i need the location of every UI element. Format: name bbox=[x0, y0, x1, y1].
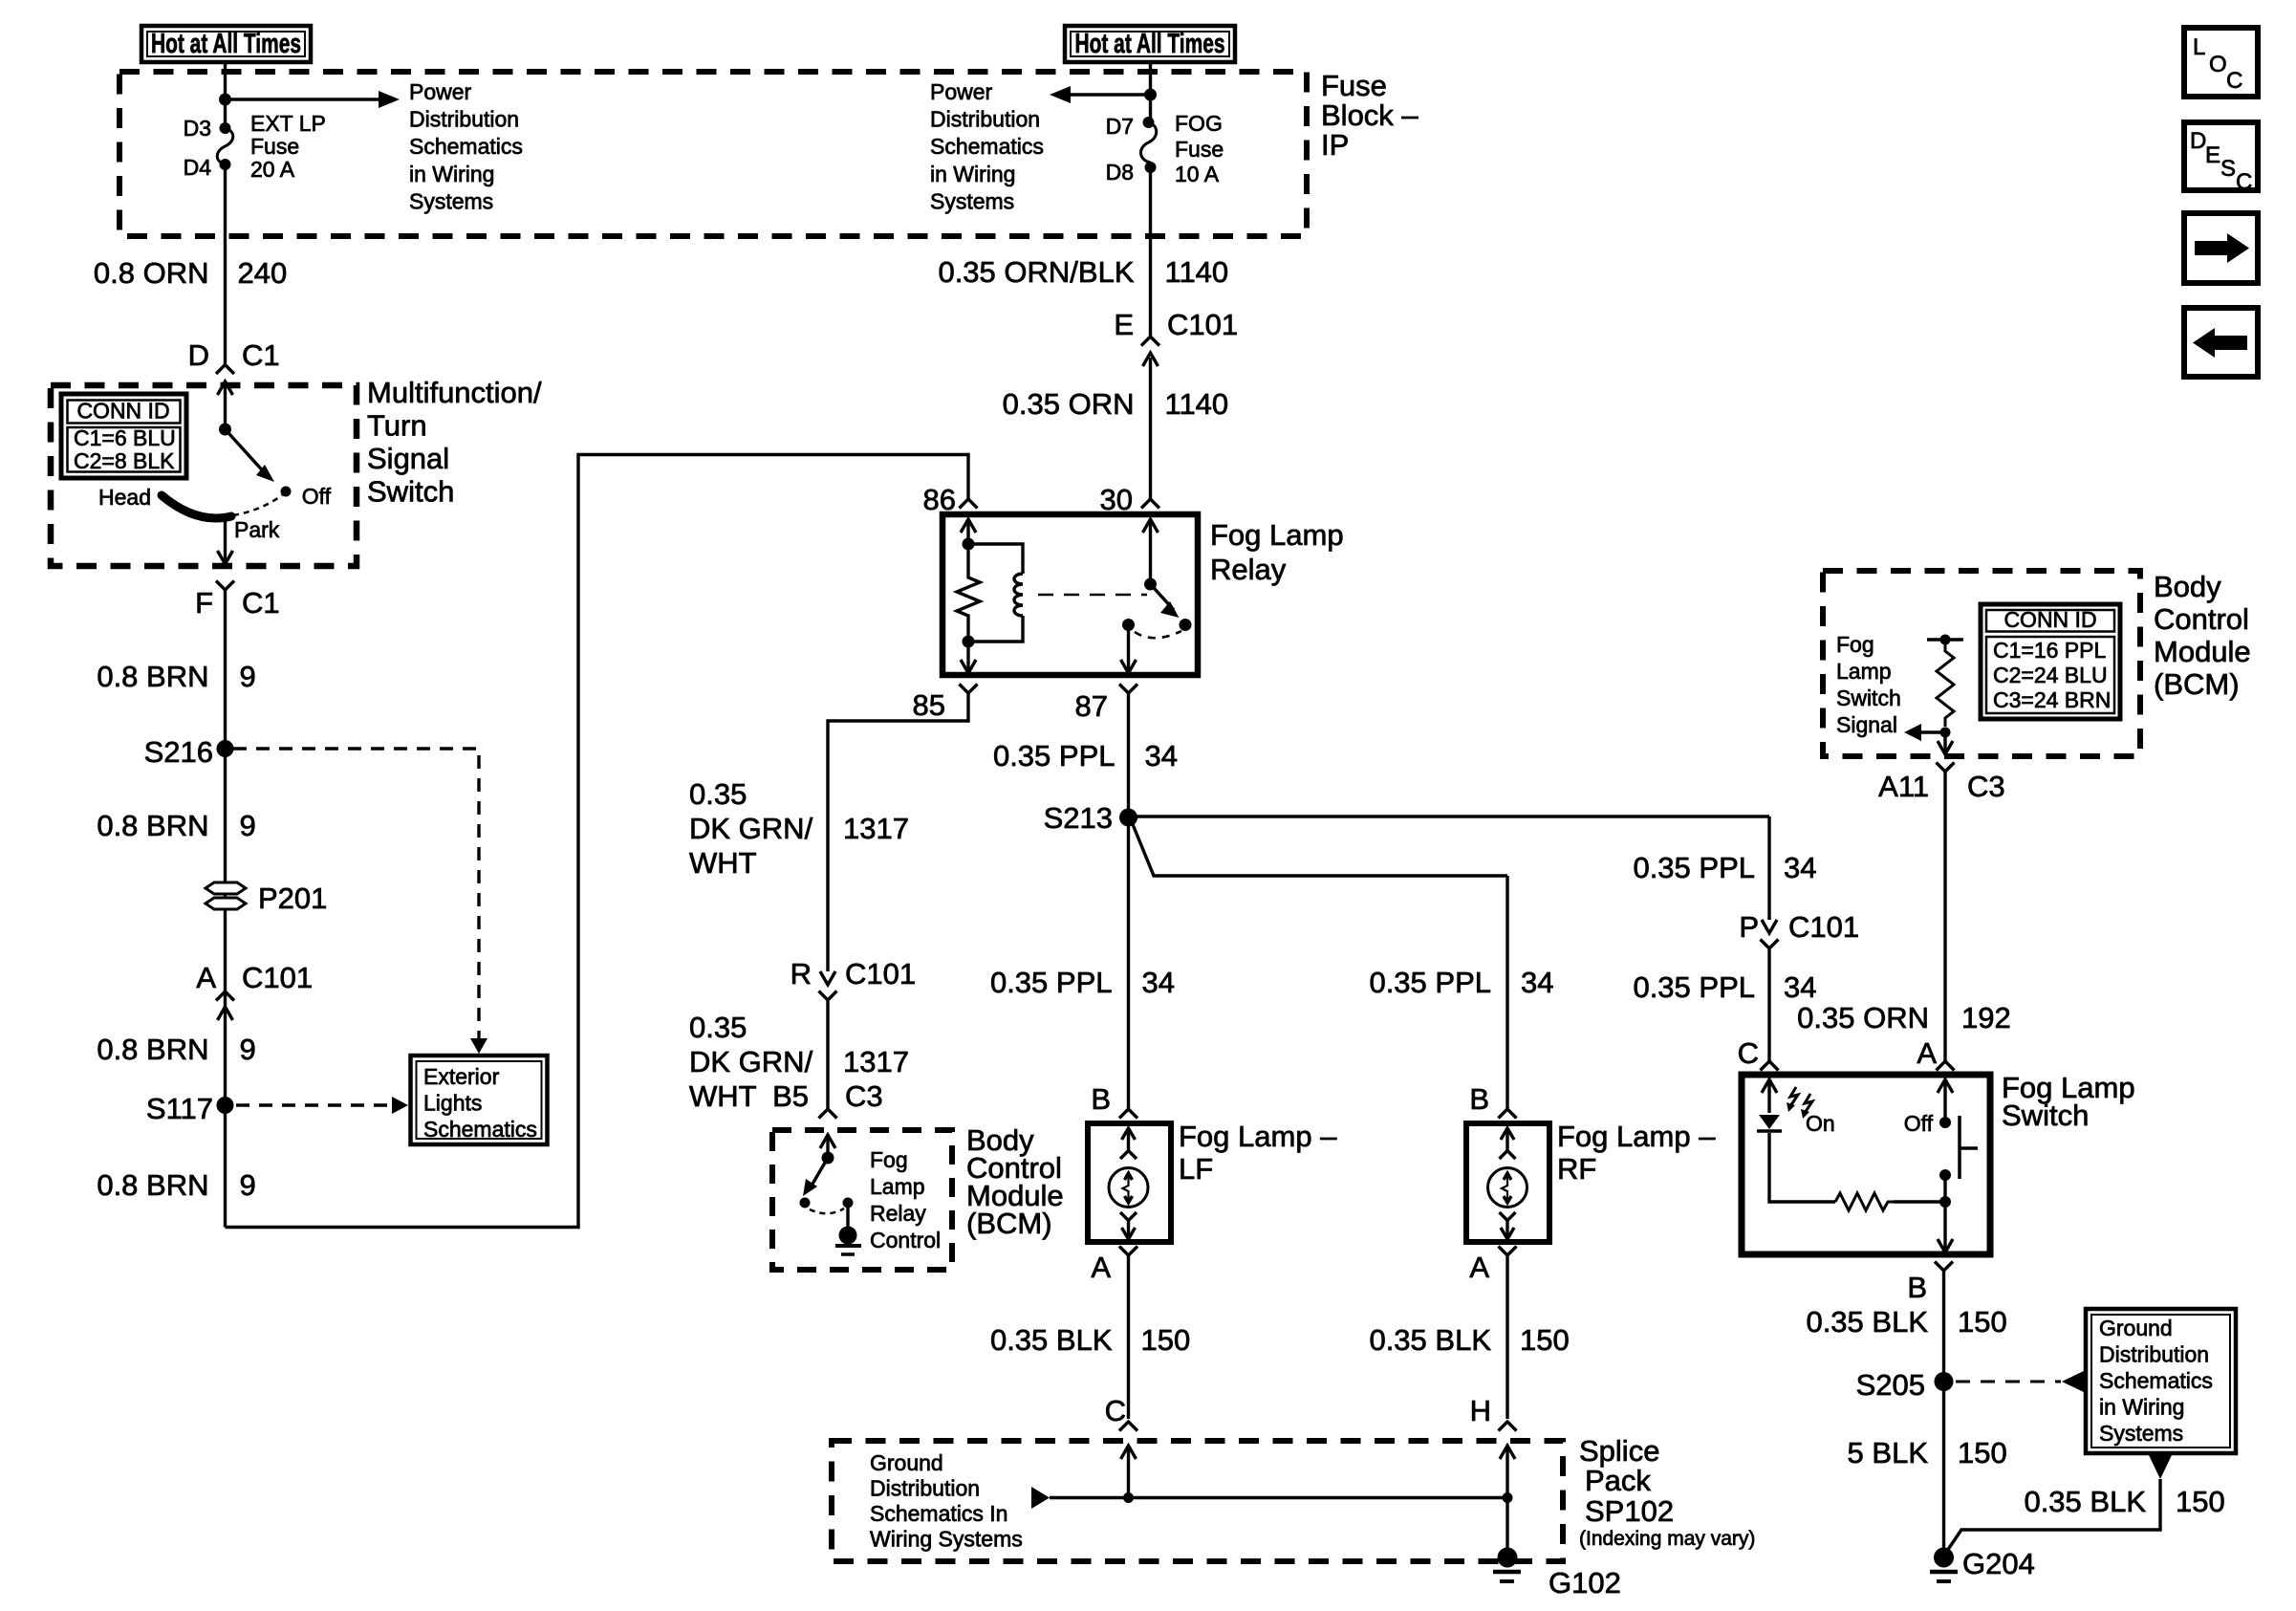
svg-text:Systems: Systems bbox=[409, 188, 493, 213]
svg-text:CONN ID: CONN ID bbox=[76, 399, 169, 424]
svg-text:9: 9 bbox=[240, 809, 256, 842]
svg-text:Switch: Switch bbox=[2002, 1099, 2089, 1132]
svg-text:0.35: 0.35 bbox=[689, 1011, 747, 1044]
Head-Park thick arc bbox=[162, 495, 231, 518]
BCM pull-up resistor bbox=[1927, 638, 1963, 641]
svg-text:C3=24 BRN: C3=24 BRN bbox=[1993, 687, 2111, 712]
svg-text:Block –: Block – bbox=[1321, 98, 1419, 132]
svg-text:Fog: Fog bbox=[870, 1147, 908, 1172]
connector F C1 bbox=[216, 581, 234, 591]
splice pack node C bbox=[1123, 1492, 1134, 1503]
Multifunction/Turn Signal Switch dashed box bbox=[51, 385, 357, 566]
svg-text:Schematics In: Schematics In bbox=[870, 1501, 1007, 1526]
svg-text:A: A bbox=[196, 961, 216, 994]
svg-text:C3: C3 bbox=[845, 1079, 883, 1113]
switch resistor bbox=[1835, 1193, 1894, 1210]
Fuse Block - IP dashed box bbox=[119, 72, 1307, 236]
ground G102 bbox=[1498, 1548, 1518, 1568]
svg-text:0.35 ORN/BLK: 0.35 ORN/BLK bbox=[938, 255, 1134, 289]
svg-text:C1: C1 bbox=[242, 586, 280, 620]
junction node in fuse block left bbox=[219, 94, 231, 106]
arrow to Power Distribution (left fuse) bbox=[226, 98, 379, 100]
svg-text:1317: 1317 bbox=[843, 812, 909, 845]
svg-text:Pack: Pack bbox=[1585, 1464, 1651, 1497]
svg-text:D: D bbox=[188, 338, 209, 372]
wire D4 down to connector D/C1 bbox=[224, 164, 227, 364]
svg-text:34: 34 bbox=[1784, 851, 1816, 884]
svg-text:(Indexing may vary): (Indexing may vary) bbox=[1579, 1528, 1755, 1550]
svg-text:A: A bbox=[1469, 1251, 1489, 1284]
svg-text:Park: Park bbox=[234, 517, 280, 542]
svg-text:C1: C1 bbox=[242, 338, 280, 372]
push button bar bbox=[1958, 1116, 1961, 1179]
LF bulb terminal chevron bottom bbox=[1120, 1212, 1137, 1221]
svg-text:C101: C101 bbox=[242, 961, 313, 994]
svg-text:240: 240 bbox=[238, 256, 288, 290]
BCM driver node bbox=[822, 1152, 834, 1165]
wire RF branch down bbox=[1505, 876, 1508, 1109]
svg-text:Schematics: Schematics bbox=[2099, 1368, 2213, 1393]
svg-text:192: 192 bbox=[1961, 1001, 2011, 1034]
svg-text:IP: IP bbox=[1321, 128, 1349, 162]
svg-text:34: 34 bbox=[1145, 739, 1178, 773]
splice S117 bbox=[217, 1097, 234, 1114]
svg-text:Switch: Switch bbox=[1836, 686, 1901, 710]
svg-text:5 BLK: 5 BLK bbox=[1848, 1436, 1929, 1469]
connector A11 C3 bbox=[1937, 763, 1955, 773]
svg-text:Signal: Signal bbox=[367, 442, 449, 475]
svg-text:Exterior: Exterior bbox=[423, 1064, 500, 1089]
svg-text:0.35 BLK: 0.35 BLK bbox=[990, 1323, 1113, 1357]
relay pin 87 fork below bbox=[1119, 685, 1137, 694]
Fog Lamp RF box bbox=[1466, 1123, 1549, 1242]
wire 87 down to S213 bbox=[1127, 693, 1130, 817]
relay resistor bbox=[957, 544, 980, 642]
svg-text:0.8 BRN: 0.8 BRN bbox=[97, 660, 208, 693]
svg-text:RF: RF bbox=[1557, 1152, 1596, 1186]
svg-text:C101: C101 bbox=[1788, 910, 1859, 944]
svg-text:in Wiring: in Wiring bbox=[2099, 1395, 2184, 1420]
svg-text:0.35 PPL: 0.35 PPL bbox=[990, 966, 1113, 999]
svg-text:B5: B5 bbox=[772, 1079, 809, 1113]
Fog Lamp LF box bbox=[1088, 1123, 1171, 1242]
connector fork into relay pin 86 bbox=[960, 499, 978, 509]
left-arrow icon box bbox=[2184, 308, 2258, 377]
svg-text:P: P bbox=[1739, 910, 1759, 944]
svg-text:DK GRN/: DK GRN/ bbox=[689, 1045, 813, 1078]
DESC icon box bbox=[2184, 122, 2258, 190]
svg-text:34: 34 bbox=[1142, 966, 1175, 999]
svg-text:SP102: SP102 bbox=[1585, 1494, 1674, 1528]
svg-text:Fuse: Fuse bbox=[1321, 69, 1387, 102]
svg-text:Systems: Systems bbox=[930, 188, 1014, 213]
resistor junction dot bbox=[1939, 1196, 1951, 1208]
svg-text:C: C bbox=[1738, 1036, 1759, 1070]
relay switch pivot bbox=[1144, 578, 1157, 591]
relay contact travel dashed arc bbox=[1135, 631, 1181, 638]
svg-text:0.8 BRN: 0.8 BRN bbox=[97, 1168, 208, 1202]
svg-text:0.35: 0.35 bbox=[689, 777, 747, 811]
wire LF to splice pack bbox=[1127, 1255, 1130, 1419]
svg-text:S216: S216 bbox=[144, 735, 213, 769]
svg-text:Distribution: Distribution bbox=[409, 107, 519, 132]
svg-text:Switch: Switch bbox=[367, 475, 454, 509]
BCM output arrow down bbox=[1943, 732, 1946, 754]
wire RF to splice pack bbox=[1505, 1255, 1508, 1419]
BCM signal arrow to Signal text bbox=[1921, 730, 1945, 733]
relay coil output arrow (pin 85) bbox=[966, 642, 969, 673]
svg-text:150: 150 bbox=[1958, 1305, 2007, 1339]
Hot at All Times label box (right) bbox=[1065, 26, 1235, 62]
splice pack bus with arrow bbox=[1031, 1487, 1050, 1509]
relay coil input arrow (pin 86) bbox=[961, 519, 976, 533]
splice S213 bbox=[1119, 809, 1137, 827]
Off contact dot bbox=[1939, 1117, 1951, 1128]
relay coil bbox=[968, 544, 1023, 574]
wire B down to G204 bbox=[1942, 1271, 1945, 1554]
svg-text:CONN ID: CONN ID bbox=[2004, 607, 2096, 632]
switch arm to Off bbox=[226, 429, 268, 475]
svg-text:9: 9 bbox=[240, 1033, 256, 1066]
grommet P201 bbox=[206, 882, 246, 894]
connector B (switch) bbox=[1935, 1262, 1953, 1272]
svg-text:C: C bbox=[1105, 1394, 1126, 1427]
svg-text:9: 9 bbox=[240, 1168, 256, 1202]
svg-text:Systems: Systems bbox=[2099, 1421, 2183, 1446]
wire H down to G102 bbox=[1505, 1497, 1508, 1554]
switch C input arrow bbox=[1762, 1079, 1777, 1093]
svg-text:D: D bbox=[2190, 128, 2206, 154]
svg-text:0.8 ORN: 0.8 ORN bbox=[94, 256, 209, 290]
svg-text:C101: C101 bbox=[845, 957, 916, 991]
svg-text:Relay: Relay bbox=[1210, 553, 1287, 586]
svg-text:Power: Power bbox=[930, 79, 993, 104]
svg-text:S: S bbox=[2220, 156, 2236, 182]
CONN ID table (multifunction) bbox=[61, 394, 186, 478]
connector A (RF lamp) bbox=[1499, 1247, 1517, 1256]
svg-text:D4: D4 bbox=[184, 155, 212, 180]
connector A (LF lamp) bbox=[1119, 1247, 1137, 1256]
RF lamp input arrow bbox=[1501, 1128, 1514, 1140]
svg-text:E: E bbox=[1114, 308, 1134, 341]
svg-text:Distribution: Distribution bbox=[2099, 1342, 2209, 1367]
svg-text:H: H bbox=[1470, 1394, 1491, 1427]
dashed reference from S216 to Exterior Lights box bbox=[233, 749, 479, 1038]
svg-text:20 A: 20 A bbox=[250, 157, 295, 182]
wire S213 to fog lamp switch branch bbox=[1129, 815, 1770, 817]
svg-text:(BCM): (BCM) bbox=[966, 1207, 1052, 1240]
BCM driver contact right bbox=[843, 1198, 854, 1208]
ground G204 bbox=[1934, 1548, 1954, 1568]
svg-text:10 A: 10 A bbox=[1175, 162, 1220, 186]
svg-text:85: 85 bbox=[913, 688, 945, 722]
svg-text:Module: Module bbox=[2154, 635, 2251, 668]
dashed reference from S117 to Exterior Lights box bbox=[236, 1103, 392, 1106]
svg-text:Hot at All Times: Hot at All Times bbox=[151, 29, 301, 59]
svg-text:G102: G102 bbox=[1549, 1566, 1621, 1600]
svg-text:150: 150 bbox=[1958, 1436, 2007, 1469]
relay switch arm bbox=[1151, 584, 1175, 610]
wire from Hot box to fuse EXT LP bbox=[224, 62, 227, 128]
ground reference wire from box to G204 bbox=[2149, 1455, 2172, 1479]
CONN ID table (BCM) bbox=[1981, 604, 2120, 719]
arrow to Power Distribution (right fuse) bbox=[1071, 93, 1151, 96]
svg-text:L: L bbox=[2193, 34, 2205, 60]
svg-text:P201: P201 bbox=[258, 882, 327, 915]
right-arrow icon box bbox=[2184, 213, 2258, 283]
svg-text:Off: Off bbox=[1904, 1111, 1934, 1136]
wire from Hot box to FOG fuse bbox=[1149, 62, 1152, 122]
BCM internal ground bbox=[846, 1203, 849, 1229]
svg-text:A: A bbox=[1917, 1036, 1937, 1070]
svg-text:0.35 BLK: 0.35 BLK bbox=[1369, 1323, 1491, 1357]
svg-text:LF: LF bbox=[1179, 1152, 1213, 1186]
svg-text:Control: Control bbox=[870, 1228, 941, 1252]
svg-text:S205: S205 bbox=[1856, 1368, 1925, 1402]
svg-text:150: 150 bbox=[1141, 1323, 1191, 1357]
Ground Distribution Schematics in Wiring Systems box bbox=[2086, 1309, 2236, 1453]
svg-text:WHT: WHT bbox=[689, 1079, 757, 1113]
svg-text:S213: S213 bbox=[1044, 801, 1113, 835]
LF lamp output arrow bbox=[1127, 1221, 1130, 1239]
splice S216 bbox=[217, 740, 234, 757]
svg-text:Fog Lamp –: Fog Lamp – bbox=[1179, 1120, 1337, 1153]
svg-text:C2=8 BLK: C2=8 BLK bbox=[74, 448, 175, 473]
svg-text:WHT: WHT bbox=[689, 846, 757, 880]
svg-text:Schematics: Schematics bbox=[930, 134, 1044, 159]
svg-text:A: A bbox=[1091, 1251, 1111, 1284]
svg-text:S117: S117 bbox=[146, 1092, 213, 1125]
svg-text:in Wiring: in Wiring bbox=[409, 162, 494, 186]
splice S205 bbox=[1935, 1372, 1954, 1391]
svg-text:Control: Control bbox=[2154, 602, 2249, 636]
svg-text:EXT LP: EXT LP bbox=[250, 111, 326, 136]
svg-text:150: 150 bbox=[1520, 1323, 1570, 1357]
RF bulb terminal chevron bottom bbox=[1500, 1212, 1516, 1221]
splice pack node H bbox=[1503, 1492, 1513, 1503]
wire 85 to R C101 bbox=[828, 693, 968, 971]
svg-text:Fog: Fog bbox=[1836, 632, 1874, 657]
Hot at All Times label box (left) bbox=[141, 26, 311, 62]
Body Control Module dashed box (fog lamp switch signal) bbox=[1823, 571, 2140, 756]
lower contact dot bbox=[1939, 1169, 1951, 1181]
svg-text:1317: 1317 bbox=[843, 1045, 909, 1078]
svg-text:B: B bbox=[1907, 1271, 1927, 1304]
BCM driver contact left bbox=[800, 1198, 811, 1208]
Off contact bbox=[281, 487, 292, 497]
left column wire down bbox=[224, 590, 227, 1228]
svg-text:O: O bbox=[2209, 52, 2227, 77]
wire D8 down to connector E/C101 bbox=[1149, 167, 1152, 337]
BCM driver input arrow bbox=[820, 1135, 835, 1148]
RF bulb terminal chevron top bbox=[1500, 1151, 1516, 1160]
svg-text:D7: D7 bbox=[1106, 114, 1134, 139]
wire S213 to RF branch bbox=[1133, 823, 1508, 876]
relay pin 30 arrow bbox=[1143, 519, 1159, 533]
svg-text:0.35 PPL: 0.35 PPL bbox=[1369, 966, 1491, 999]
svg-text:Lamp: Lamp bbox=[1836, 659, 1892, 684]
svg-text:87: 87 bbox=[1075, 689, 1108, 723]
svg-text:Multifunction/: Multifunction/ bbox=[367, 376, 542, 409]
svg-text:(BCM): (BCM) bbox=[2154, 667, 2240, 701]
LED light arrows bbox=[1790, 1087, 1798, 1106]
svg-text:Turn: Turn bbox=[367, 409, 427, 443]
svg-text:Power: Power bbox=[409, 79, 472, 104]
svg-text:C3: C3 bbox=[1967, 770, 2005, 803]
dashed travel arc to Off bbox=[233, 495, 282, 515]
svg-text:0.35 PPL: 0.35 PPL bbox=[1633, 970, 1755, 1004]
svg-text:Fog Lamp: Fog Lamp bbox=[1210, 518, 1344, 552]
loop wire bottom and right up to relay 86 bbox=[226, 455, 969, 1228]
svg-text:Hot at All Times: Hot at All Times bbox=[1075, 29, 1225, 59]
svg-text:Ground: Ground bbox=[870, 1450, 943, 1475]
RF bulb bbox=[1488, 1168, 1527, 1208]
Splice Pack SP102 dashed box bbox=[832, 1441, 1563, 1561]
relay coil/resistor top node bbox=[963, 538, 975, 551]
relay actuation dashed link bbox=[1038, 594, 1147, 597]
svg-text:C1=6 BLU: C1=6 BLU bbox=[74, 425, 176, 450]
wire branch down to P C101 bbox=[1767, 816, 1770, 920]
svg-text:1140: 1140 bbox=[1165, 387, 1229, 421]
svg-text:150: 150 bbox=[2176, 1485, 2225, 1518]
svg-text:Fog Lamp –: Fog Lamp – bbox=[1557, 1120, 1716, 1153]
BCM driver dashed arc bbox=[810, 1208, 844, 1213]
junction node in fuse block right bbox=[1144, 89, 1157, 101]
svg-text:0.8 BRN: 0.8 BRN bbox=[97, 1033, 208, 1066]
svg-text:1140: 1140 bbox=[1165, 255, 1229, 289]
svg-text:R: R bbox=[791, 957, 812, 991]
svg-text:0.35 PPL: 0.35 PPL bbox=[993, 739, 1116, 773]
wire Park down to box edge bbox=[224, 517, 227, 564]
LF lamp input arrow bbox=[1122, 1128, 1136, 1140]
BCM signal node bbox=[1940, 728, 1951, 738]
svg-text:DK GRN/: DK GRN/ bbox=[689, 812, 813, 845]
relay pin 87 arrow bbox=[1127, 625, 1130, 674]
Body Control Module dashed box (relay control) bbox=[772, 1130, 952, 1270]
svg-text:0.35 ORN: 0.35 ORN bbox=[1797, 1001, 1929, 1034]
svg-text:34: 34 bbox=[1521, 966, 1553, 999]
svg-text:Lights: Lights bbox=[423, 1091, 482, 1116]
svg-text:in Wiring: in Wiring bbox=[930, 162, 1015, 186]
svg-text:Off: Off bbox=[302, 484, 332, 509]
svg-text:B: B bbox=[1091, 1082, 1111, 1116]
svg-text:Distribution: Distribution bbox=[930, 107, 1040, 132]
Fog Lamp Relay box bbox=[942, 514, 1198, 675]
svg-text:34: 34 bbox=[1784, 970, 1816, 1004]
switch input node bbox=[219, 424, 231, 436]
BCM driver arm bbox=[812, 1158, 828, 1186]
svg-text:G204: G204 bbox=[1962, 1547, 2035, 1580]
relay open contact bbox=[1180, 619, 1192, 631]
svg-text:D8: D8 bbox=[1106, 160, 1134, 185]
connector fork into relay pin 30 bbox=[1149, 358, 1152, 499]
LED to resistor wire bbox=[1769, 1133, 1835, 1202]
switch A input arrow bbox=[1938, 1079, 1953, 1093]
svg-text:Relay: Relay bbox=[870, 1201, 926, 1226]
wire A11 down to switch bbox=[1943, 772, 1946, 1061]
svg-text:0.8 BRN: 0.8 BRN bbox=[97, 809, 208, 842]
svg-text:C2=24 BLU: C2=24 BLU bbox=[1993, 663, 2108, 687]
RF lamp output arrow bbox=[1505, 1221, 1508, 1239]
svg-text:Splice: Splice bbox=[1579, 1434, 1659, 1468]
indicator LED bbox=[1759, 1115, 1780, 1129]
svg-text:Wiring Systems: Wiring Systems bbox=[870, 1527, 1023, 1552]
svg-text:C: C bbox=[2236, 169, 2252, 195]
LF bulb bbox=[1109, 1168, 1148, 1208]
svg-text:Head: Head bbox=[98, 485, 151, 510]
svg-text:B: B bbox=[1469, 1082, 1489, 1116]
relay contact (to 87) bbox=[1122, 619, 1135, 631]
svg-text:C1=16 PPL: C1=16 PPL bbox=[1993, 638, 2106, 663]
svg-text:C101: C101 bbox=[1167, 308, 1238, 341]
LOC icon box bbox=[2184, 28, 2258, 97]
svg-text:A11: A11 bbox=[1878, 770, 1929, 803]
LF bulb terminal chevron top bbox=[1120, 1151, 1137, 1160]
splice pack H input arrow bbox=[1500, 1446, 1515, 1459]
svg-text:Lamp: Lamp bbox=[870, 1174, 925, 1199]
svg-text:On: On bbox=[1806, 1111, 1835, 1136]
svg-text:0.35 BLK: 0.35 BLK bbox=[1806, 1305, 1928, 1339]
svg-text:C: C bbox=[2226, 68, 2242, 94]
svg-text:Ground: Ground bbox=[2099, 1316, 2173, 1340]
svg-text:9: 9 bbox=[240, 660, 256, 693]
relay coil/resistor bottom node bbox=[963, 636, 975, 648]
Exterior Lights Schematics box bbox=[411, 1056, 548, 1144]
switch output arrow bbox=[1943, 1202, 1946, 1252]
svg-text:0.35 PPL: 0.35 PPL bbox=[1633, 851, 1755, 884]
svg-text:F: F bbox=[195, 586, 213, 620]
dashed reference S205 to Ground Distribution box bbox=[1956, 1381, 2061, 1383]
svg-text:D3: D3 bbox=[184, 116, 211, 141]
svg-text:Fuse: Fuse bbox=[250, 134, 299, 159]
relay pin 85 fork below bbox=[960, 685, 978, 694]
svg-text:Distribution: Distribution bbox=[870, 1476, 980, 1501]
splice pack C input arrow bbox=[1121, 1446, 1137, 1459]
svg-text:Schematics: Schematics bbox=[423, 1117, 537, 1142]
svg-text:0.35 BLK: 0.35 BLK bbox=[2024, 1485, 2146, 1518]
svg-text:Body: Body bbox=[2154, 570, 2221, 603]
svg-text:0.35 ORN: 0.35 ORN bbox=[1003, 387, 1135, 421]
svg-text:E: E bbox=[2205, 142, 2220, 168]
svg-text:Schematics: Schematics bbox=[409, 134, 523, 159]
svg-text:FOG: FOG bbox=[1175, 111, 1223, 136]
wire S213 down to LF lamp bbox=[1127, 817, 1130, 1109]
Fog Lamp Switch box bbox=[1742, 1075, 1990, 1254]
svg-text:Signal: Signal bbox=[1836, 712, 1897, 737]
svg-text:Fuse: Fuse bbox=[1175, 137, 1224, 162]
